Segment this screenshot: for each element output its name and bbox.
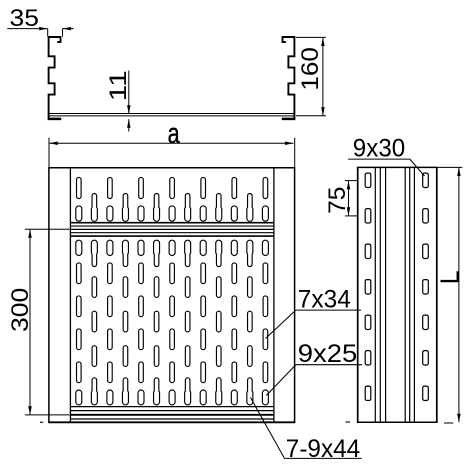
perforation slots column 13 [263, 177, 268, 198]
dimension 300 extension lines [25, 228, 70, 230]
side view fold lines [374, 167, 376, 422]
side view left slot column (9x30 slots) [365, 173, 371, 187]
label 7x34 underline and leader [296, 309, 361, 311]
perforation slots column 7 [170, 177, 175, 198]
svg-text:a: a [168, 118, 180, 150]
dimension 35 line and arrows [7, 28, 47, 30]
cross-section left wall profile with notch jogs and top hook flange [49, 37, 61, 120]
projection line right (cross-section to plan) [294, 138, 296, 168]
plan view right flange inner line [273, 168, 275, 423]
svg-text:75: 75 [324, 187, 351, 214]
perforation slots column 9 [201, 177, 206, 198]
svg-text:7x34: 7x34 [298, 286, 351, 314]
perforation slots column 6 [154, 194, 160, 222]
plan view rib band 2 (4 lines) [70, 406, 274, 408]
perforation slots column 5 [139, 177, 144, 198]
perforation slots column 12 [247, 194, 253, 222]
side view bottom edge left tick [346, 421, 351, 423]
perforation slots column 11 [232, 177, 237, 198]
svg-text:35: 35 [10, 5, 40, 32]
small tick at plan bottom left [40, 421, 43, 423]
svg-text:L: L [434, 270, 464, 284]
perforation slots column 3 [108, 177, 113, 198]
side view outer border [357, 167, 359, 422]
perforation slots column 2 [91, 194, 97, 222]
plan view rib band 1 (5 lines) [70, 222, 274, 224]
dimension 35 extension lines [47, 29, 49, 37]
dimension 75 extension lines [345, 180, 359, 182]
perforation slots column 1 [77, 177, 82, 198]
cross-section left bottom foot lip [48, 118, 62, 121]
dimension a line and arrows [49, 142, 293, 144]
projection line left (cross-section to plan) [48, 138, 50, 168]
perforation slots column 4 [122, 194, 128, 222]
svg-text:9x25: 9x25 [298, 340, 358, 368]
label 9x30 underline and leader [348, 158, 410, 160]
label 9x25 underline and leader [296, 364, 362, 366]
dimension L extension lines [438, 166, 463, 168]
dimension 160 extension lines [296, 36, 326, 38]
dimension 75 line and arrows [348, 181, 350, 216]
dimension 160 line and arrows [322, 37, 324, 115]
dimension L line and arrows [458, 167, 460, 422]
cross-section right wall profile with notch jogs and top hook flange [283, 37, 295, 120]
side view right slot column (9x30 slots) [423, 173, 429, 187]
label 7-9x44 underline and leader [285, 457, 362, 459]
svg-text:9x30: 9x30 [353, 135, 405, 163]
cross-section bottom plate (double line) [49, 113, 295, 115]
perforation slots column 8 [185, 194, 191, 222]
dimension 11 line and arrows [128, 71, 130, 114]
perforation slots column 10 [216, 194, 222, 222]
plan view left flange inner line [69, 168, 71, 423]
svg-text:11: 11 [105, 70, 132, 101]
svg-text:160: 160 [297, 47, 324, 91]
cross-section right bottom foot lip [282, 118, 296, 121]
plan view outer border [48, 168, 50, 423]
dimension 300 line and arrows [29, 229, 31, 415]
